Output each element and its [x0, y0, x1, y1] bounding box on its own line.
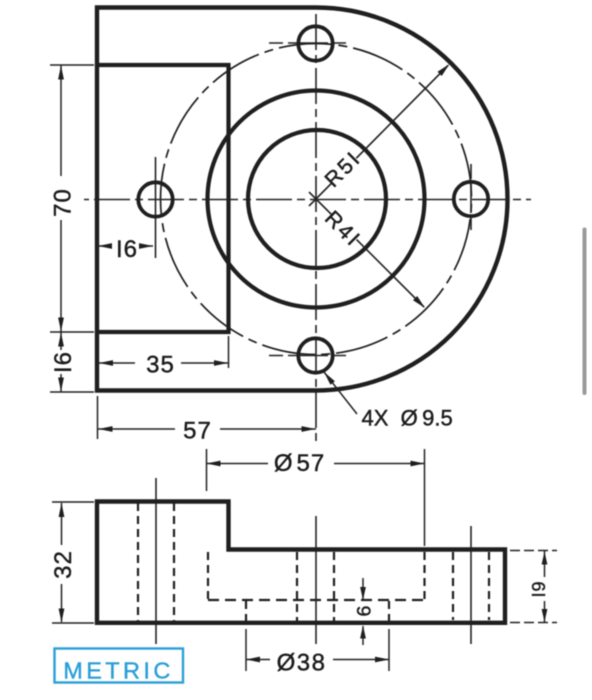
svg-text:32: 32	[50, 550, 77, 579]
svg-text:I6: I6	[116, 236, 138, 263]
svg-text:I9: I9	[529, 580, 549, 597]
svg-text:METRIC: METRIC	[63, 658, 173, 684]
svg-text:4X Ø 9.5: 4X Ø 9.5	[362, 406, 453, 431]
svg-text:57: 57	[183, 418, 212, 445]
svg-text:70: 70	[50, 188, 77, 217]
svg-text:6: 6	[354, 606, 376, 617]
svg-text:Ø 57: Ø 57	[274, 450, 325, 477]
svg-text:Ø38: Ø38	[277, 650, 327, 677]
svg-text:35: 35	[146, 352, 175, 379]
svg-text:R4I: R4I	[320, 206, 366, 252]
svg-text:R5I: R5I	[320, 146, 366, 192]
svg-text:I6: I6	[50, 351, 77, 373]
